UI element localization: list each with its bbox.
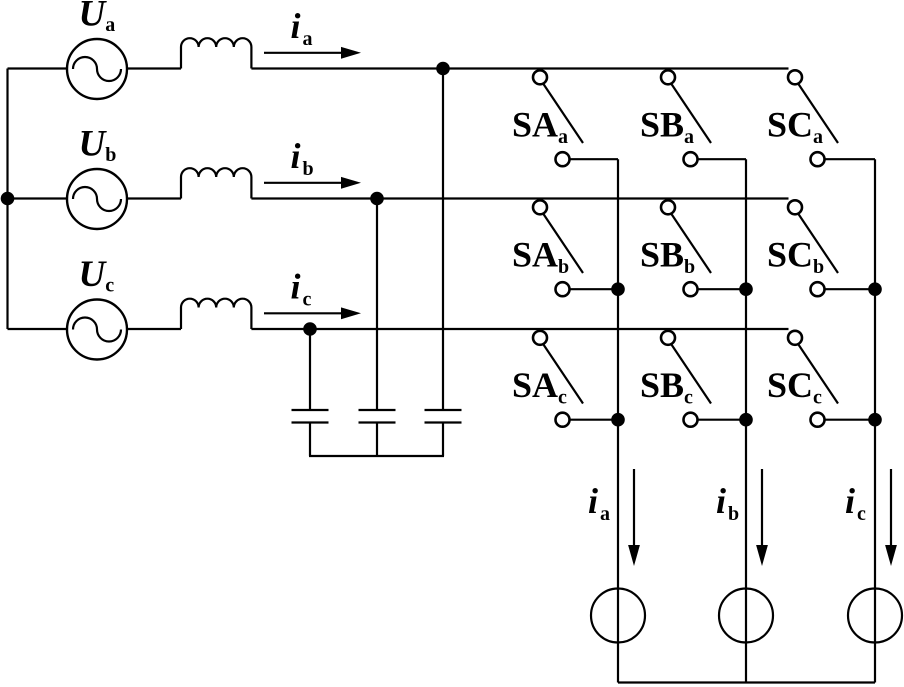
wire: row a horizontal bus from inductor to switch column C: [251, 67, 788, 69]
arrow: output current ib: [756, 469, 768, 566]
wire: vertical from row b down to capacitor: [376, 199, 378, 411]
node: row c junction to filter capacitor: [303, 322, 317, 336]
wire: left vertical rail joining the three sources: [6, 69, 8, 330]
svg-text:SBa: SBa: [640, 105, 694, 149]
svg-text:Ua: Ua: [79, 0, 116, 36]
AC source Ub: [67, 169, 127, 229]
svg-text:SCa: SCa: [767, 105, 823, 149]
switch SCa (top contact, arm, bottom contact, output wire): [788, 70, 875, 166]
node: row b junction to filter capacitor: [370, 192, 384, 206]
arrow: output current ia: [628, 469, 640, 566]
wire: rail to source Ua: [8, 67, 68, 69]
inductor Lc: [181, 299, 251, 329]
node: switch SCc output junction on column C: [868, 413, 882, 427]
switch SBa (top contact, arm, bottom contact, output wire): [661, 70, 746, 166]
svg-text:ib: ib: [716, 481, 739, 525]
svg-text:Ub: Ub: [79, 124, 117, 167]
svg-text:Uc: Uc: [79, 254, 115, 297]
arrow: input current ia: [264, 47, 361, 59]
switch SCb (top contact, arm, bottom contact, output wire): [788, 200, 875, 296]
wire: rail to source Ub: [8, 197, 68, 199]
svg-text:SAc: SAc: [512, 365, 567, 409]
wire: rail to source Uc: [8, 328, 68, 330]
svg-text:SAa: SAa: [512, 105, 568, 149]
wire: capacitor common bus: [309, 455, 444, 457]
switch SAc (top contact, arm, bottom contact, output wire): [533, 331, 618, 427]
wire: capacitor C3 lower lead: [442, 423, 444, 457]
svg-text:SBc: SBc: [640, 365, 693, 409]
current source load B: [719, 589, 773, 643]
svg-text:ic: ic: [291, 267, 312, 311]
switch SAb (top contact, arm, bottom contact, output wire): [533, 200, 618, 296]
wire: capacitor C1 lower lead: [309, 423, 311, 457]
wire: output column B vertical: [745, 159, 747, 682]
svg-text:SCc: SCc: [767, 365, 822, 409]
wire: row c horizontal bus from inductor to switch column C: [251, 328, 788, 330]
node: switch SBc output junction on column B: [739, 413, 753, 427]
capacitor C2 plates: [359, 410, 396, 423]
wire: vertical from row a down to capacitor: [442, 69, 444, 411]
svg-text:ia: ia: [291, 6, 313, 50]
node: switch SAc output junction on column A: [611, 413, 625, 427]
svg-text:ic: ic: [845, 481, 866, 525]
node: switch SBb output junction on column B: [739, 282, 753, 296]
wire: output column C vertical: [874, 159, 876, 682]
capacitor C1 plates: [292, 410, 329, 423]
wire: source Ua to inductor La: [127, 67, 181, 69]
arrow: input current ib: [264, 177, 361, 189]
switch SAa (top contact, arm, bottom contact, output wire): [533, 70, 618, 166]
AC source Uc: [67, 300, 127, 360]
inductor Lb: [181, 168, 251, 198]
node: switch SAb output junction on column A: [611, 282, 625, 296]
wire: row b horizontal bus from inductor to switch column C: [251, 197, 788, 199]
AC source Ua: [67, 39, 127, 99]
wire: output bottom bus: [618, 681, 875, 683]
capacitor C3 plates: [425, 410, 462, 423]
wire: source Uc to inductor Lc: [127, 328, 181, 330]
wire: capacitor C2 lower lead: [376, 423, 378, 457]
svg-text:ia: ia: [588, 481, 610, 525]
arrow: output current ic: [885, 469, 897, 566]
wire: source Ub to inductor Lb: [127, 197, 181, 199]
current source load A: [591, 589, 645, 643]
switch SCc (top contact, arm, bottom contact, output wire): [788, 331, 875, 427]
inductor La: [181, 38, 251, 68]
current source load C: [848, 589, 902, 643]
arrow: input current ic: [264, 307, 361, 319]
svg-text:ib: ib: [291, 136, 314, 180]
node: row a junction to filter capacitor: [436, 62, 450, 76]
node: switch SCb output junction on column C: [868, 282, 882, 296]
svg-text:SBb: SBb: [640, 235, 695, 279]
node: junction of rail with phase-b branch: [1, 192, 15, 206]
switch SBc (top contact, arm, bottom contact, output wire): [661, 331, 746, 427]
wire: output column A vertical: [617, 159, 619, 682]
wire: vertical from row c down to capacitor: [309, 329, 311, 410]
switch SBb (top contact, arm, bottom contact, output wire): [661, 200, 746, 296]
